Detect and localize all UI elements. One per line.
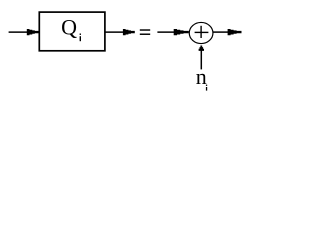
wire equals to adder	[157, 31, 174, 33]
svg-text:Q: Q	[61, 15, 77, 40]
wire noise input	[200, 51, 202, 70]
wire quantizer output	[105, 31, 123, 33]
equals sign	[140, 29, 150, 35]
arrowhead noise into adder (up)	[199, 46, 204, 51]
wire input to quantizer	[9, 31, 28, 33]
quantizer block box	[39, 12, 105, 51]
arrowhead into quantizer	[27, 29, 39, 35]
arrowhead quantizer output	[123, 29, 135, 35]
plus sign	[195, 26, 209, 38]
label Q subscript i	[80, 34, 81, 42]
arrowhead into adder	[174, 29, 189, 35]
arrowhead adder output	[228, 29, 242, 35]
label n subscript i	[206, 85, 207, 91]
svg-text:n: n	[196, 64, 207, 89]
wire adder output	[213, 31, 229, 33]
summing junction circle	[189, 22, 213, 43]
